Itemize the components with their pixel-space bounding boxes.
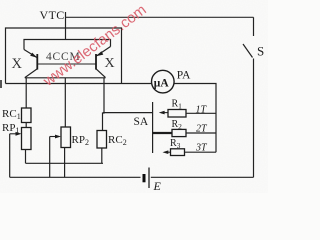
- meter PA circle: [152, 70, 175, 93]
- wire R1 to tap bus: [186, 112, 216, 114]
- wire RP1 wiper down to bottom bus: [9, 134, 11, 178]
- wire right column (collector to RC2, crosses bottom bus): [103, 78, 105, 131]
- svg-text:2T: 2T: [196, 124, 208, 135]
- wire bottom left: [10, 176, 141, 178]
- RP1 wiper arrow: [10, 133, 19, 135]
- wire top rail to switch: [66, 16, 254, 18]
- transistor V1 base bar: [36, 54, 38, 70]
- battery E long plate: [148, 168, 150, 189]
- wire right edge down: [253, 59, 255, 178]
- wire base-to-base: [37, 63, 96, 65]
- resistor R3 box: [171, 149, 185, 156]
- switch SA bus: [152, 102, 154, 153]
- switch S top lead: [253, 17, 255, 36]
- wire left column to RC1: [25, 78, 27, 108]
- wire bottom bus y=83.5 from left edge to meter: [6, 83, 152, 85]
- resistor R1 box: [168, 110, 186, 118]
- wire RP1 bottom: [25, 150, 27, 164]
- wire RP2 bottom down: [64, 148, 66, 178]
- svg-text:1T: 1T: [196, 105, 208, 116]
- wire collector bus y=77.8: [25, 77, 106, 79]
- resistor R2 box: [172, 129, 186, 136]
- svg-text:PA: PA: [177, 69, 191, 81]
- scan artifact left edge: [0, 80, 2, 88]
- switch arm to R2 (thick): [153, 132, 172, 134]
- wire RC2 bottom: [101, 148, 103, 163]
- potentiometer RP2 box: [61, 127, 71, 148]
- wire outer loop (top y=28, left edge, right edge): [6, 28, 122, 84]
- transistor V1 emitter diagonal with arrow: [24, 50, 37, 58]
- resistor RC2 box: [97, 131, 107, 149]
- wire R3 to tap bus: [185, 151, 217, 153]
- wire SA feed from RC2 column: [103, 112, 153, 114]
- potentiometer RP1 box: [22, 128, 32, 150]
- transistor V2 base bar: [95, 54, 97, 70]
- wire bottom right: [151, 176, 254, 178]
- svg-text:μA: μA: [154, 77, 170, 89]
- resistor RC1 box: [22, 108, 32, 123]
- svg-text:3T: 3T: [195, 143, 208, 154]
- wire RC1 to RP1: [25, 123, 27, 128]
- wire mid bottom bus y=163.3: [26, 162, 104, 164]
- svg-text:X: X: [105, 56, 115, 71]
- switch S blade: [243, 44, 253, 58]
- wire VTC stub down to collector loop: [65, 12, 67, 40]
- resistor R1 arrow: [161, 112, 168, 114]
- paper noise: [0, 0, 268, 193]
- svg-text:SA: SA: [134, 116, 149, 128]
- transistor V1 collector diagonal: [25, 69, 38, 78]
- svg-text:S: S: [257, 44, 264, 59]
- resistor R3 arrow: [165, 151, 171, 153]
- svg-text:E: E: [153, 179, 162, 193]
- wire collector loop top: [24, 40, 111, 50]
- battery E short plate: [143, 174, 146, 182]
- transistor V2 collector diagonal: [96, 69, 106, 78]
- wire R2 to tap bus: [186, 132, 216, 134]
- transistor V2 emitter diagonal with arrow: [96, 47, 111, 57]
- wire meter to right tap bus corner: [174, 84, 216, 153]
- svg-text:VTC: VTC: [40, 8, 65, 22]
- svg-text:X: X: [12, 56, 23, 72]
- wire RP2 top tap: [64, 78, 66, 127]
- RP2 wiper arrow: [50, 136, 59, 138]
- wire RP2 wiper down: [49, 137, 51, 178]
